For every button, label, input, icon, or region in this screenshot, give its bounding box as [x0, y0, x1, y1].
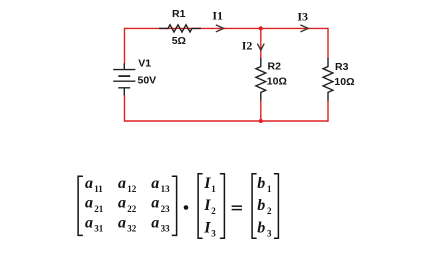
constant vector b brackets	[252, 174, 278, 238]
entry a12	[118, 175, 137, 194]
svg-text:10Ω: 10Ω	[334, 76, 354, 88]
svg-text:22: 22	[127, 204, 137, 214]
entry a11	[85, 175, 103, 194]
label I3	[297, 10, 308, 24]
entry a23	[151, 195, 170, 214]
entry a31	[85, 214, 104, 233]
label R3	[335, 61, 349, 73]
label R2	[268, 61, 282, 73]
entry a32	[118, 214, 137, 233]
svg-text:13: 13	[161, 184, 171, 194]
entry a21	[85, 195, 104, 214]
label R1	[172, 8, 186, 20]
node junction top	[259, 26, 263, 30]
svg-text:3: 3	[267, 229, 272, 239]
entry I2	[203, 197, 216, 216]
svg-text:I: I	[203, 197, 211, 214]
svg-text:I1: I1	[212, 8, 223, 22]
svg-text:2: 2	[267, 206, 272, 216]
entry a22	[118, 195, 137, 214]
label I1	[212, 8, 223, 22]
entry b2	[257, 197, 272, 216]
svg-text:R3: R3	[335, 61, 349, 73]
value 50V	[138, 75, 157, 87]
coefficient matrix A brackets	[78, 176, 177, 235]
svg-text:I3: I3	[297, 10, 308, 24]
svg-text:a: a	[118, 214, 126, 231]
svg-text:a: a	[151, 214, 159, 231]
resistor R3	[323, 58, 333, 101]
svg-text:R2: R2	[268, 61, 282, 73]
svg-text:V1: V1	[138, 57, 151, 69]
svg-text:a: a	[151, 175, 159, 192]
entry I3	[203, 220, 216, 239]
svg-text:50V: 50V	[138, 75, 157, 87]
value 5Ω	[172, 35, 186, 47]
svg-text:b: b	[257, 197, 265, 214]
svg-text:R1: R1	[172, 8, 186, 20]
svg-text:1: 1	[211, 184, 216, 194]
svg-text:3: 3	[211, 229, 216, 239]
resistor R1	[159, 25, 201, 32]
label V1	[138, 57, 151, 69]
label I2	[242, 39, 253, 53]
entry b1	[257, 175, 272, 194]
wire bottom node	[125, 120, 329, 122]
node junction bottom	[259, 119, 263, 123]
svg-text:32: 32	[127, 224, 137, 234]
multiplication dot	[184, 205, 189, 210]
svg-text:b: b	[257, 175, 265, 192]
svg-text:b: b	[257, 220, 265, 237]
current arrow I2	[257, 44, 264, 51]
wire right R3 branch	[327, 28, 329, 122]
svg-text:I: I	[203, 175, 211, 192]
svg-text:I2: I2	[242, 39, 253, 53]
svg-text:21: 21	[94, 204, 104, 214]
equals sign	[232, 206, 242, 209]
svg-text:a: a	[85, 195, 93, 212]
svg-text:31: 31	[94, 224, 104, 234]
current vector I brackets	[198, 174, 224, 238]
svg-text:a: a	[85, 175, 93, 192]
resistor R2	[256, 58, 266, 101]
value 10Ω of R3	[334, 76, 354, 88]
svg-text:a: a	[118, 195, 126, 212]
wire middle R2 branch	[260, 28, 262, 121]
svg-text:a: a	[118, 175, 126, 192]
svg-text:a: a	[151, 195, 159, 212]
svg-text:2: 2	[211, 206, 216, 216]
svg-text:I: I	[203, 220, 211, 237]
value 10Ω of R2	[267, 75, 287, 87]
wire left V1 branch	[124, 28, 126, 122]
battery V1	[113, 63, 135, 95]
entry I1	[203, 175, 216, 194]
svg-text:33: 33	[161, 224, 171, 234]
entry a13	[151, 175, 170, 194]
current arrow I3	[300, 25, 308, 32]
svg-text:5Ω: 5Ω	[172, 35, 186, 47]
svg-text:1: 1	[267, 184, 272, 194]
wire top node	[125, 27, 329, 29]
svg-text:a: a	[85, 214, 93, 231]
svg-text:11: 11	[94, 184, 103, 194]
svg-text:23: 23	[161, 204, 171, 214]
current arrow I1	[216, 25, 224, 32]
entry a33	[151, 214, 170, 233]
svg-text:12: 12	[127, 184, 137, 194]
svg-text:10Ω: 10Ω	[267, 75, 287, 87]
entry b3	[257, 220, 272, 239]
